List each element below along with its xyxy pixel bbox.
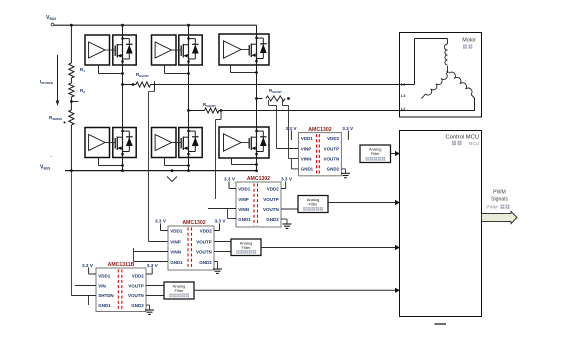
- wire U8 VOUTN: [281, 208, 298, 210]
- resistor RSHUNT phase C: [255, 88, 290, 101]
- label motor terminal L3: [401, 93, 406, 98]
- wire U1 return: [99, 65, 124, 75]
- wire F3 to MCU: [261, 245, 400, 250]
- svg-text:GND1: GND1: [98, 303, 111, 308]
- wire U9 VOUTN: [214, 251, 231, 253]
- ground U10 GND2: [145, 305, 154, 314]
- wire F4 to MCU: [194, 288, 400, 293]
- svg-text:AMC1302: AMC1302: [308, 127, 331, 133]
- VBUS- label: [40, 153, 53, 170]
- svg-text:VDD2: VDD2: [267, 186, 280, 191]
- node motor star point: [447, 71, 449, 73]
- analog filter F1: [360, 145, 391, 163]
- svg-text:VINN: VINN: [301, 156, 312, 161]
- supply 3.3V U7 right: [342, 126, 354, 140]
- wire phase C upper: [256, 25, 258, 98]
- continuation chevron: [167, 177, 177, 182]
- wire phase B lower: [188, 111, 190, 171]
- svg-text:Signals: Signals: [491, 197, 508, 203]
- wire shunt A tap VINP: [149, 92, 169, 242]
- svg-text:GND1: GND1: [238, 217, 251, 222]
- wire VBUS- rail: [65, 169, 258, 172]
- svg-text:VOUTN: VOUTN: [128, 293, 144, 298]
- svg-text:3.3 V: 3.3 V: [155, 219, 167, 224]
- wire U10 VOUTP: [146, 285, 164, 287]
- svg-text:VINN: VINN: [170, 250, 181, 255]
- wire U9 VOUTP: [214, 241, 231, 243]
- svg-text:Filter: Filter: [371, 151, 381, 156]
- resistor RSHUNT phase B: [187, 102, 222, 113]
- supply 3.3V U9 right: [214, 219, 226, 231]
- wire shunt B tap: [216, 111, 222, 200]
- svg-text:3.3 V: 3.3 V: [224, 177, 236, 182]
- supply 3.3V U8 left: [224, 177, 236, 189]
- wire U9 VINN: [134, 248, 169, 262]
- PWM output arrow: [482, 211, 518, 223]
- svg-text:VOUTP: VOUTP: [128, 283, 144, 288]
- svg-text:SHTDN: SHTDN: [98, 293, 114, 298]
- analog filter F2: [298, 196, 328, 213]
- svg-text:VOUTN: VOUTN: [323, 156, 339, 161]
- gate driver U2 top phase B: [152, 35, 203, 65]
- svg-text:3.3 V: 3.3 V: [215, 219, 227, 224]
- svg-text:VDD1: VDD1: [301, 136, 314, 141]
- svg-text:VINP: VINP: [238, 197, 249, 202]
- svg-text:GND2: GND2: [199, 260, 212, 265]
- wire VBUS+ bus: [54, 24, 257, 27]
- inductor motor left coil: [422, 73, 448, 98]
- wire U5 return: [165, 158, 190, 167]
- svg-text:VINN: VINN: [238, 207, 249, 212]
- gate driver U1 top phase A: [85, 35, 136, 65]
- ground U7 GND2: [341, 169, 350, 178]
- isolated amplifier U8 AMC1302: [236, 176, 281, 227]
- analog filter F3: [231, 239, 261, 256]
- wire U10 VIN: [75, 285, 96, 287]
- svg-text:VIN: VIN: [98, 283, 106, 288]
- svg-text:Filter: Filter: [309, 202, 319, 207]
- label PWM signals: [486, 190, 509, 210]
- wire phase C lower: [256, 99, 258, 171]
- isolated amplifier U9 AMC1302: [168, 220, 214, 270]
- svg-text:GND2: GND2: [327, 166, 340, 171]
- wire divider drop: [70, 25, 72, 63]
- wire U10 VOUTN: [146, 295, 164, 297]
- wire rail to SHTDN: [71, 171, 96, 305]
- resistor RSENSE: [49, 110, 74, 125]
- svg-text:3.3 V: 3.3 V: [286, 126, 298, 131]
- svg-text:L2: L2: [401, 106, 406, 111]
- svg-text:GND1: GND1: [301, 166, 314, 171]
- node divider tap: [70, 97, 79, 110]
- supply 3.3V U10 left: [82, 263, 96, 274]
- wire U6 return: [232, 158, 258, 166]
- gate driver U6 bottom phase C: [219, 127, 269, 158]
- svg-text:VOUTN: VOUTN: [263, 207, 279, 212]
- svg-text:AMC1302: AMC1302: [182, 220, 205, 226]
- svg-text:VDD2: VDD2: [200, 228, 213, 233]
- gate driver U5 bottom phase B: [152, 128, 203, 158]
- wire F2 to MCU: [328, 200, 400, 205]
- svg-text:3.3 V: 3.3 V: [82, 263, 94, 268]
- wire phase B to motor L2: [219, 110, 475, 112]
- wire U3 return: [231, 65, 258, 74]
- wire phase A upper: [122, 25, 124, 84]
- svg-text:GND1: GND1: [170, 260, 183, 265]
- svg-text:VOUTN: VOUTN: [196, 250, 212, 255]
- svg-text:PWM: PWM: [493, 190, 506, 196]
- svg-text:GND2: GND2: [131, 303, 144, 308]
- resistor R2: [69, 83, 86, 97]
- ground U9 GND2: [213, 262, 222, 274]
- svg-text:AMC1302: AMC1302: [247, 176, 270, 182]
- wire phase A lower: [122, 85, 124, 171]
- svg-text:VDD1: VDD1: [98, 273, 111, 278]
- wire U7 VINN-GND1 tie: [291, 159, 298, 169]
- supply 3.3V U10 right: [146, 263, 159, 274]
- current arrow IDIVIDER: [40, 55, 59, 106]
- svg-text:Control MCU: Control MCU: [446, 134, 480, 140]
- svg-text:Filter: Filter: [242, 245, 252, 250]
- isolated amplifier U7 AMC1302: [299, 127, 342, 176]
- svg-text:GND2: GND2: [266, 217, 279, 222]
- wire shunt C tap VINN: [283, 100, 299, 159]
- gate driver U3 top phase C: [219, 34, 269, 65]
- label motor terminal L2: [401, 106, 406, 111]
- gate driver U4 bottom phase A: [85, 128, 136, 158]
- wire U4 return: [99, 158, 124, 167]
- svg-text:L3: L3: [401, 93, 406, 98]
- wire shunt C tap VINP: [269, 100, 299, 149]
- svg-text:VDD1: VDD1: [238, 186, 251, 191]
- supply 3.3V U8 right: [281, 177, 293, 189]
- svg-text:VINP: VINP: [170, 239, 181, 244]
- wire motor L1 internal: [399, 39, 448, 85]
- wire phase B upper: [188, 25, 190, 110]
- svg-text:VOUTP: VOUTP: [263, 197, 279, 202]
- svg-text:VOUTP: VOUTP: [324, 146, 340, 151]
- wire U8 VINN: [208, 209, 236, 219]
- resistor R1: [69, 63, 86, 78]
- wire U2 return: [165, 65, 190, 75]
- svg-text:PWM: PWM: [486, 205, 497, 210]
- wire RSENSE to rail: [70, 125, 72, 171]
- inductor motor top coil: [444, 39, 447, 73]
- svg-text:VDD2: VDD2: [327, 136, 340, 141]
- svg-text:VDD1: VDD1: [170, 228, 183, 233]
- supply 3.3V U9 left: [155, 219, 168, 231]
- wire R1-R2: [70, 78, 72, 83]
- svg-text:VINP: VINP: [301, 146, 312, 151]
- svg-text:L1: L1: [401, 81, 406, 86]
- svg-text:3.3 V: 3.3 V: [342, 126, 354, 131]
- svg-text:3.3 V: 3.3 V: [147, 263, 159, 268]
- motor block: [400, 33, 482, 118]
- stub below MCU: [435, 323, 447, 325]
- ground U8 GND2: [281, 219, 292, 228]
- supply 3.3V U7 left: [286, 126, 298, 140]
- svg-text:Motor: Motor: [462, 38, 476, 44]
- svg-text:AMC1311B: AMC1311B: [108, 262, 135, 268]
- wire F1 to MCU: [391, 151, 401, 156]
- svg-text:3.3 V: 3.3 V: [281, 177, 293, 182]
- resistor RSHUNT phase A: [121, 72, 154, 92]
- svg-text:MCU: MCU: [469, 141, 479, 146]
- label motor terminal L1: [401, 81, 406, 86]
- analog filter F4: [164, 282, 194, 299]
- svg-text:Filter: Filter: [175, 288, 185, 293]
- VBUS+ label: [46, 15, 56, 26]
- control MCU block: [400, 131, 482, 317]
- wire phase A to motor L1: [151, 84, 400, 86]
- inductor motor right coil: [449, 72, 475, 111]
- isolated amplifier U10 AMC1311B: [96, 262, 146, 311]
- svg-text:VDD2: VDD2: [132, 273, 145, 278]
- svg-text:VOUTP: VOUTP: [196, 239, 212, 244]
